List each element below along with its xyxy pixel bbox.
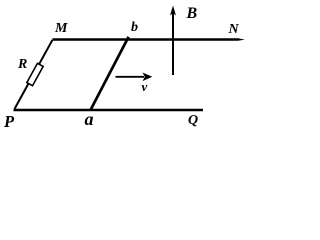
arrow B field (170, 6, 176, 76)
node P label (4, 114, 14, 131)
node a label (85, 110, 94, 128)
resistor R1 (27, 63, 43, 85)
node b label (131, 21, 138, 35)
label R resistor value (18, 58, 27, 72)
wire left edge M-P (through resistor) (15, 40, 53, 109)
wire top rail M-b-N (53, 38, 239, 40)
label B field (187, 6, 198, 22)
label v velocity (142, 80, 148, 93)
node Q label (188, 114, 198, 128)
arrow v velocity (116, 73, 153, 82)
node N label (229, 23, 239, 37)
wire bottom rail P-a-Q (14, 109, 204, 112)
node M label (55, 22, 67, 36)
rod ab (91, 37, 129, 110)
